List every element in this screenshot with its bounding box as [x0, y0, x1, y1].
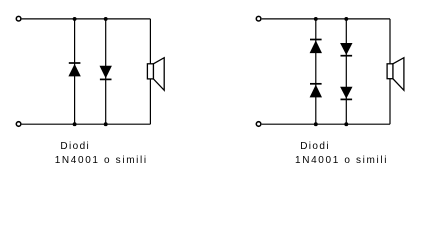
diode D6 (lower, pointing down) — [340, 87, 352, 100]
junction dot (top rail / D5 branch) — [344, 17, 348, 21]
diode D3 (upper, pointing up) — [310, 40, 322, 54]
junction dot (bottom rail / D2 branch) — [104, 122, 108, 126]
junction dot (bottom rail / D6 branch) — [344, 122, 348, 126]
wire: top rail — [262, 18, 390, 20]
wire: bottom rail — [262, 123, 390, 125]
junction dot (top rail / D3 branch) — [314, 17, 318, 21]
wire: diode D1 branch — [74, 19, 76, 124]
wire: diodes D3/D4 branch — [315, 19, 317, 124]
wire: diodes D5/D6 branch — [345, 19, 347, 124]
junction dot (top rail / D2 branch) — [104, 17, 108, 21]
svg-text:1N4001 o simili: 1N4001 o simili — [295, 155, 388, 166]
speaker LS2 — [387, 58, 404, 91]
wire: speaker branch — [389, 19, 391, 124]
svg-text:Diodi: Diodi — [300, 141, 330, 152]
wire: speaker branch — [149, 19, 151, 124]
terminal J2 (bottom left, open circle) — [16, 122, 21, 127]
junction dot (top rail / D1 branch) — [73, 17, 77, 21]
diode D2 (anode up, pointing down) — [100, 66, 112, 80]
terminal J1 (top left, open circle) — [16, 16, 21, 21]
diode D5 (upper, pointing down) — [340, 43, 352, 56]
svg-text:1N4001 o simili: 1N4001 o simili — [55, 155, 148, 166]
wire: diode D2 branch — [105, 19, 107, 124]
svg-text:Diodi: Diodi — [60, 141, 90, 152]
junction dot (bottom rail / D1 branch) — [73, 122, 77, 126]
diode D4 (lower, pointing up) — [310, 84, 322, 98]
wire: bottom rail — [22, 123, 151, 125]
wire: top rail — [22, 18, 151, 20]
diode D1 (anode down, pointing up) — [68, 63, 80, 76]
terminal J3 (top left, open circle) — [256, 16, 261, 21]
junction dot (bottom rail / D4 branch) — [314, 122, 318, 126]
terminal J4 (bottom left, open circle) — [256, 122, 261, 127]
speaker LS1 — [147, 58, 164, 91]
